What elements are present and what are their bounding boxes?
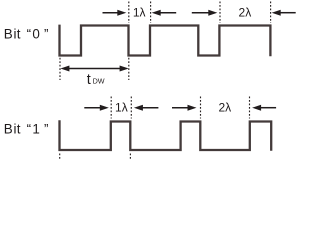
svg-text:2λ: 2λ: [218, 100, 231, 114]
svg-text:t: t: [87, 72, 91, 88]
svg-text:2λ: 2λ: [239, 5, 252, 19]
svg-text:1λ: 1λ: [133, 5, 146, 19]
svg-text:1λ: 1λ: [115, 100, 128, 114]
svg-text:DW: DW: [93, 76, 105, 85]
